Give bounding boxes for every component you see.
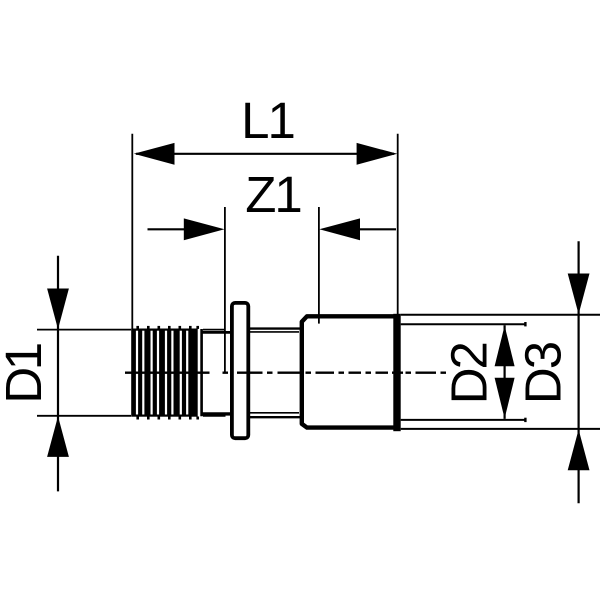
D3 arrowhead top — [568, 274, 590, 315]
pipe outer bottom line — [401, 428, 600, 430]
left cylinder top edge — [202, 331, 232, 334]
D2 arrowhead down — [495, 378, 515, 419]
thread white slots — [136, 331, 188, 415]
body outline — [302, 316, 400, 427]
L1 arrowhead left — [134, 143, 175, 165]
D3 dimension line — [577, 241, 579, 503]
thread block fill — [131, 329, 198, 417]
body right edge bar — [393, 314, 400, 431]
right cylinder top edge — [248, 327, 300, 329]
svg-text:L1: L1 — [241, 92, 294, 149]
D1 dimension line — [57, 256, 59, 492]
pipe inner top end tick — [524, 322, 526, 326]
svg-text:Z1: Z1 — [245, 166, 301, 223]
Z1 arrowhead right — [319, 218, 360, 240]
D1 arrowhead bottom — [47, 416, 69, 457]
pipe inner bottom end tick — [524, 418, 526, 422]
svg-text:D1: D1 — [0, 344, 52, 403]
D2 arrowhead up — [495, 326, 515, 367]
pipe inner top line — [401, 323, 526, 325]
D2 dimension line — [504, 325, 506, 419]
Z1 dimension tail right — [358, 228, 396, 230]
right cylinder top detail line — [250, 331, 300, 333]
D1 extension line top — [37, 329, 131, 331]
Z1 dimension tail left — [148, 228, 187, 230]
pipe inner bottom line — [401, 419, 526, 421]
D3 arrowhead bottom — [568, 430, 590, 471]
thread crest nubs bottom — [136, 417, 199, 420]
flange — [232, 303, 248, 438]
thread crest nubs top — [136, 326, 199, 329]
centerline — [125, 372, 446, 374]
D1 arrowhead top — [47, 289, 69, 330]
left cylinder bottom edge — [202, 412, 232, 415]
right cylinder bottom detail line — [250, 412, 300, 414]
D1 extension line bottom right part — [203, 415, 226, 417]
thread right end gap line — [200, 329, 203, 416]
D1 extension line top right part — [203, 329, 226, 331]
Z1 extension line right — [318, 207, 320, 324]
pipe outer top line — [401, 314, 600, 316]
D1 extension line bottom — [37, 415, 131, 417]
svg-text:D2: D2 — [441, 343, 498, 404]
L1 extension line left — [131, 134, 133, 331]
Z1 extension line left — [224, 207, 226, 374]
Z1 arrowhead left — [184, 218, 225, 240]
L1 extension line right — [397, 134, 399, 316]
L1 dimension line — [136, 153, 394, 155]
right cylinder bottom edge — [248, 416, 300, 418]
svg-text:D3: D3 — [514, 342, 571, 404]
L1 arrowhead right — [357, 143, 398, 165]
